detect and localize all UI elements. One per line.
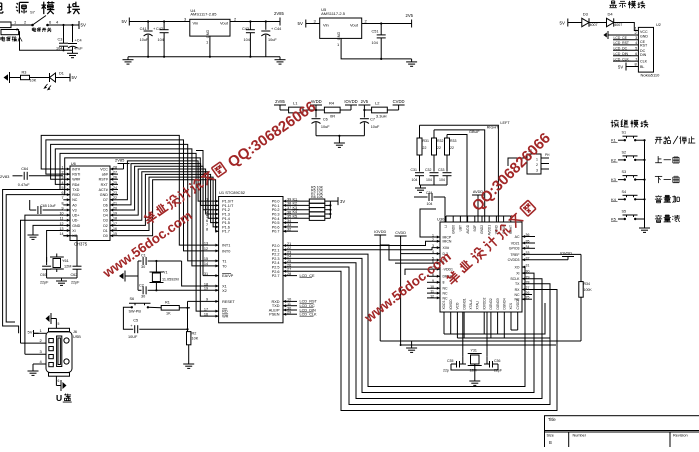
ground crystal Y1: [119, 271, 125, 282]
wire VS bottom drop: [497, 312, 499, 334]
svg-text:17: 17: [204, 307, 208, 311]
wire UD+ to USB pin3: [25, 215, 63, 354]
watermark left www: [99, 208, 195, 281]
connector U2 Nokia5110: [638, 23, 660, 77]
svg-text:30: 30: [141, 265, 145, 269]
svg-text:NC: NC: [443, 296, 449, 300]
wire AVDD stem: [477, 200, 479, 222]
svg-text:X2: X2: [222, 289, 227, 293]
svg-text:D6: D6: [103, 203, 108, 207]
net K5: [611, 217, 625, 222]
svg-text:GND: GND: [337, 32, 341, 41]
svg-text:104: 104: [372, 41, 378, 45]
ground rc network: [415, 185, 426, 192]
resistor R4 0R: [324, 101, 340, 119]
wire R33 top: [446, 135, 448, 139]
svg-text:22pF: 22pF: [40, 281, 49, 285]
wire XTALI down: [462, 312, 464, 357]
switch S7: [31, 16, 49, 27]
wire bottom horiz 341: [380, 340, 581, 342]
wire XO: [63, 236, 77, 262]
wire U4 Vout to 2V85: [230, 21, 280, 23]
capacitor C32 104: [425, 168, 439, 182]
capacitor C65 10uF: [30, 204, 64, 214]
wire VS bottom drop: [463, 312, 465, 338]
svg-text:MICN: MICN: [443, 240, 452, 244]
wire EA up: [196, 151, 203, 276]
capacitor C44 10uF: [261, 20, 281, 56]
switch S7 label: [30, 10, 36, 15]
svg-text:CVDD: CVDD: [393, 99, 405, 104]
wire VS pin7: [405, 269, 440, 275]
title block: [545, 416, 699, 452]
wire rc gnd rail: [420, 184, 448, 186]
svg-text:K4: K4: [611, 197, 617, 202]
wire pin32 IOVDD: [522, 259, 568, 261]
label 上一曲: [655, 156, 679, 163]
svg-text:5V: 5V: [72, 75, 77, 80]
svg-text:WR#: WR#: [72, 178, 80, 182]
svg-text:XTALI: XTALI: [476, 301, 480, 310]
resistor pullup 3: [309, 208, 325, 212]
svg-text:XTALA: XTALA: [469, 299, 473, 310]
svg-text:INT#: INT#: [72, 167, 80, 171]
wire XTALO down: [486, 312, 488, 357]
wire R4 to IOVDD: [340, 109, 351, 111]
wire R34 bottom: [580, 297, 582, 341]
wire U6 right pin stub: [110, 183, 118, 185]
svg-text:2: 2: [536, 163, 538, 167]
wire VS right stub: [522, 242, 535, 244]
net LCD_DIN: [283, 308, 316, 312]
pin 8: [635, 61, 638, 66]
svg-text:104: 104: [439, 178, 445, 182]
wire U6 right pin stub: [110, 194, 118, 196]
wire xtal gnd stem: [474, 364, 476, 378]
svg-text:22pF: 22pF: [71, 281, 80, 285]
svg-text:10uF: 10uF: [321, 125, 330, 129]
wire bus D7 to P1.0: [118, 161, 219, 201]
svg-text:R8 10K: R8 10K: [311, 195, 324, 199]
pin 4: [40, 359, 43, 364]
wire CVDD column: [400, 241, 402, 345]
svg-text:4007: 4007: [614, 23, 622, 27]
wire U6 pin9 stub: [63, 209, 70, 211]
svg-text:XI: XI: [516, 272, 519, 276]
wire P2.6 loop to VS1003: [283, 271, 557, 410]
capacitor C31 104: [411, 168, 425, 182]
svg-text:DGND3: DGND3: [496, 298, 500, 309]
wire VS pin1: [420, 209, 440, 237]
svg-text:VD21: VD21: [511, 241, 520, 245]
wire gnd stem: [411, 341, 413, 345]
net K1: [611, 138, 625, 143]
wire VS right stub: [522, 294, 532, 296]
svg-text:RSTI: RSTI: [72, 173, 80, 177]
wire VS bottom drop: [483, 312, 485, 334]
wire P0.2: [283, 209, 309, 211]
wire to gnd: [338, 136, 340, 140]
svg-text:D2: D2: [103, 224, 108, 228]
svg-text:Vin: Vin: [193, 21, 199, 26]
svg-text:UBT: UBT: [459, 225, 463, 231]
svg-text:3.3uH: 3.3uH: [376, 114, 387, 119]
svg-text:D4: D4: [608, 12, 614, 17]
svg-text:CVDD3: CVDD3: [508, 258, 520, 262]
wire U6 right pin stub: [110, 199, 118, 201]
svg-text:VCC: VCC: [100, 167, 108, 171]
pin 4: [56, 20, 59, 25]
svg-text:5V: 5V: [560, 20, 565, 25]
wire VS pin12 stub: [427, 297, 440, 299]
wire P2.4 loop to VS1003: [283, 263, 542, 399]
svg-text:Vout: Vout: [220, 21, 229, 26]
power 2V85 U6: [115, 158, 130, 170]
wire U6 pin7 stub: [63, 199, 70, 201]
svg-text:XO: XO: [514, 265, 519, 269]
svg-text:D5: D5: [103, 208, 108, 212]
wire XI: [47, 231, 64, 262]
svg-text:C3: C3: [58, 38, 63, 42]
svg-text:U30: U30: [437, 216, 445, 221]
wire VS pin4: [401, 253, 440, 255]
label U盘: [56, 393, 62, 403]
svg-text:RST#: RST#: [99, 178, 108, 182]
capacitor C36 22pF: [484, 359, 502, 373]
label 音量减: [655, 215, 680, 222]
svg-text:GND0: GND0: [451, 225, 455, 234]
svg-text:104: 104: [244, 38, 250, 42]
ground U6: [28, 232, 39, 239]
svg-text:30: 30: [141, 295, 145, 299]
svg-text:UD-: UD-: [72, 219, 79, 223]
svg-text:5: 5: [58, 322, 60, 326]
svg-text:Title: Title: [548, 417, 556, 422]
wire P0.6 stub: [283, 226, 298, 228]
svg-text:C42: C42: [156, 27, 163, 31]
wire U6 right pin stub: [110, 173, 118, 175]
net K1: [293, 197, 299, 201]
net K5: [293, 215, 299, 219]
svg-text:2V85: 2V85: [275, 99, 285, 104]
wire U6 gnd: [33, 225, 63, 232]
connector J3 USB socket: [46, 328, 81, 376]
wire xtal gnd rail2: [62, 277, 78, 279]
svg-text:D3: D3: [583, 12, 589, 17]
wire reset node: [186, 301, 188, 331]
wire U6 pin12 stub: [63, 224, 70, 226]
net K4: [611, 197, 625, 202]
svg-text:D4: D4: [103, 214, 108, 218]
connector J2 headphone: [527, 149, 550, 174]
svg-text:P1.7: P1.7: [222, 230, 230, 234]
svg-text:8: 8: [206, 228, 208, 232]
wire 5V to pin8: [626, 66, 638, 68]
wire crystal taps: [47, 254, 57, 273]
svg-text:B: B: [549, 440, 552, 445]
power 2V85: [274, 11, 284, 26]
svg-text:14: 14: [60, 232, 64, 236]
net K4: [293, 210, 299, 214]
wire gnd to R3: [10, 77, 21, 79]
svg-text:15: 15: [204, 257, 208, 261]
svg-text:J6: J6: [73, 330, 77, 334]
junction: [643, 179, 645, 181]
resistor R34 100K: [579, 282, 593, 298]
wire VS bottom drop: [443, 312, 445, 334]
svg-text:PSEN: PSEN: [269, 313, 280, 317]
wire USB pin2: [21, 342, 47, 344]
svg-text:V3: V3: [72, 208, 76, 212]
wire top stub rail: [446, 215, 511, 217]
ground U4 right: [275, 57, 286, 64]
wire U6 pin10 stub: [63, 214, 70, 216]
svg-text:INT1: INT1: [222, 244, 230, 248]
wire S7 to 5V: [48, 24, 80, 26]
wire VS top stub: [481, 216, 483, 222]
svg-text:0.47uF: 0.47uF: [18, 183, 31, 187]
svg-text:3: 3: [635, 36, 637, 40]
svg-text:22: 22: [450, 146, 454, 150]
svg-text:P2.7: P2.7: [272, 274, 280, 278]
resistor pullup 5: [309, 216, 325, 220]
wire bottom rail 334: [444, 303, 545, 334]
svg-text:S2: S2: [622, 150, 627, 154]
net LCD_CLK: [283, 313, 317, 317]
svg-text:LI: LI: [444, 225, 448, 228]
ground USB pin4: [28, 368, 39, 375]
svg-text:R2: R2: [192, 332, 197, 336]
svg-text:5V: 5V: [122, 19, 127, 24]
pin 1: [40, 328, 43, 333]
svg-text:C34: C34: [426, 191, 432, 195]
wire VS pin5: [380, 245, 440, 260]
wire R1 right: [179, 307, 190, 309]
wire VS top stub: [503, 216, 505, 222]
svg-text:INT0: INT0: [222, 249, 230, 253]
capacitor C43 104: [242, 20, 255, 56]
power 5V input U5: [298, 20, 306, 28]
wire U6 right pin stub: [110, 219, 118, 221]
pushbutton S4: [622, 190, 638, 201]
wire S6 left loop: [123, 307, 133, 329]
diode D3 4007: [582, 12, 598, 28]
svg-text:C65 10uF: C65 10uF: [40, 204, 55, 208]
svg-text:L1: L1: [293, 101, 298, 106]
wire S6 to R1: [148, 306, 161, 309]
wire 5V: [34, 332, 39, 334]
wire gnd to caps: [125, 275, 138, 277]
ground filter: [334, 140, 345, 147]
svg-text:D1: D1: [59, 72, 64, 76]
wire filter gnd rail: [316, 135, 364, 137]
svg-text:2V5: 2V5: [406, 13, 414, 18]
svg-text:P0.7: P0.7: [272, 230, 280, 234]
wire bus D0 to P1.7: [118, 180, 219, 236]
svg-text:NC: NC: [514, 293, 520, 297]
svg-text:CVDD2: CVDD2: [516, 298, 520, 309]
wire 5V to U4 Vin: [129, 21, 190, 23]
svg-text:IOVDD: IOVDD: [449, 299, 453, 310]
junction: [338, 135, 340, 137]
svg-text:C60: C60: [40, 273, 47, 277]
svg-text:RD: RD: [222, 310, 228, 314]
pushbutton S2: [622, 150, 638, 161]
wire bus U6 pin2 to MCU: [46, 140, 219, 251]
svg-text:U6: U6: [71, 161, 77, 166]
svg-text:R3: R3: [22, 71, 27, 75]
wire VS top stub: [474, 216, 476, 222]
ground crystal Y61: [56, 278, 67, 285]
wire bus D3 to P1.4: [118, 172, 219, 221]
svg-text:12: 12: [204, 247, 208, 251]
svg-text:C43: C43: [242, 27, 249, 31]
svg-text:22: 22: [423, 146, 427, 150]
svg-text:104: 104: [158, 38, 164, 42]
wire VS right stub: [522, 298, 532, 300]
watermark right cjk: [445, 200, 536, 286]
power 5V BL: [618, 63, 626, 71]
pin 2: [24, 20, 27, 25]
capacitor C5 10UF: [128, 319, 188, 339]
svg-text:Number: Number: [573, 434, 587, 438]
wire pullup to rail: [325, 213, 331, 215]
svg-text:K1: K1: [611, 138, 617, 143]
capacitor C34 104: [414, 191, 445, 222]
crystal Y61 12M: [50, 257, 71, 269]
ground Y31: [469, 378, 480, 385]
power CVDD mid: [395, 231, 407, 241]
diode D4 4007: [607, 12, 623, 28]
wire VS top stub: [510, 216, 512, 222]
svg-text:XCS: XCS: [509, 303, 513, 310]
wire power return: [19, 32, 73, 51]
svg-text:RST: RST: [640, 44, 648, 48]
pin 6: [49, 20, 52, 25]
svg-text:U: U: [56, 393, 62, 403]
wire U6 pin4 stub: [63, 183, 70, 185]
pin 1: [635, 25, 638, 30]
svg-text:GND: GND: [72, 224, 80, 228]
svg-text:SW-PB: SW-PB: [129, 310, 142, 314]
svg-text:R33: R33: [450, 139, 456, 143]
svg-text:S5: S5: [622, 210, 627, 214]
capacitor C2 30pF: [138, 284, 156, 299]
svg-text:47uF: 47uF: [74, 47, 83, 51]
label 下一曲: [655, 176, 679, 183]
svg-text:XI: XI: [72, 229, 75, 233]
svg-text:8: 8: [62, 201, 64, 205]
svg-text:13: 13: [204, 241, 208, 245]
capacitor C60 22pF: [40, 266, 51, 284]
net LCD_CE: [613, 36, 638, 40]
svg-text:IOVDD2: IOVDD2: [482, 297, 486, 309]
svg-text:C2: C2: [139, 284, 144, 288]
svg-text:RD#: RD#: [72, 183, 79, 187]
svg-text:C5: C5: [133, 319, 138, 323]
title 按键模块: [611, 120, 649, 128]
wire VS top stub: [467, 216, 469, 222]
wire P0.0: [283, 200, 309, 202]
svg-text:IOVDD: IOVDD: [344, 99, 357, 104]
label 电源开关: [32, 28, 51, 32]
junctions: [147, 56, 251, 58]
wire VS bottom drop: [517, 312, 519, 330]
wire rail to 5V: [330, 200, 338, 202]
wire c35 link: [463, 357, 466, 364]
svg-text:Nokia5110: Nokia5110: [641, 72, 661, 77]
pin 1: [14, 20, 17, 25]
resistor R32 22: [432, 138, 444, 155]
pin 6 shield bottom: [56, 376, 59, 385]
svg-text:R31: R31: [423, 139, 429, 143]
svg-text:104: 104: [427, 202, 433, 206]
svg-text:BL: BL: [640, 65, 644, 69]
pin 2: [40, 338, 43, 343]
svg-text:SOF: SOF: [473, 225, 477, 232]
wire U6 right pin stub: [110, 204, 118, 206]
junction: [18, 332, 20, 334]
wire R33 to C33: [446, 155, 448, 172]
svg-text:12M: 12M: [64, 265, 71, 269]
wire R32 to C32: [433, 155, 435, 172]
resistor R3 10K: [21, 71, 37, 83]
svg-text:DGND2: DGND2: [489, 298, 493, 309]
wire S3 to common: [635, 179, 644, 181]
svg-text:L2: L2: [375, 101, 380, 106]
wire gnd rail: [128, 56, 280, 58]
power IOVDD tap: [344, 99, 357, 110]
svg-text:10uF: 10uF: [371, 125, 380, 129]
wire U6 right pin stub: [110, 189, 118, 191]
svg-text:Vin: Vin: [323, 22, 329, 27]
svg-text:Y1: Y1: [163, 271, 168, 275]
svg-text:GND: GND: [100, 193, 108, 197]
svg-text:GPIO3: GPIO3: [509, 247, 520, 251]
resistor pullup 4: [309, 212, 325, 216]
wire xtal gnd rail: [47, 277, 62, 279]
svg-text:C7: C7: [370, 118, 375, 122]
net K2: [293, 202, 299, 206]
pushbutton S3: [622, 170, 638, 181]
wire bus D1 to P1.6: [118, 177, 219, 230]
power AVDD VS: [472, 190, 484, 200]
svg-text:5: 5: [635, 47, 637, 51]
svg-text:C36: C36: [494, 359, 500, 363]
wire C1C2 common: [137, 261, 139, 290]
wire S4 to common: [635, 198, 644, 200]
wire pin33 to R34: [522, 253, 581, 255]
capacitor C33 104: [438, 168, 452, 182]
power 5V pullups: [338, 197, 345, 205]
wire X2: [156, 289, 218, 291]
wire VCC pin28: [110, 168, 124, 170]
title 电源模块: [0, 1, 80, 14]
wire v3: [29, 200, 31, 210]
svg-text:RESET: RESET: [222, 300, 235, 304]
resistor R2 10K: [187, 332, 199, 345]
wire U6 pin2 stub: [63, 173, 70, 175]
pin 2: [635, 30, 638, 35]
svg-text:AMS1117-2.85: AMS1117-2.85: [190, 11, 217, 16]
svg-text:WR: WR: [222, 315, 229, 319]
capacitor C64 0.47uF: [0, 167, 63, 187]
wire R31 top: [419, 125, 421, 138]
wire R3 to D1: [30, 77, 50, 79]
svg-text:+C4: +C4: [75, 39, 82, 43]
svg-text:AC: AC: [515, 235, 520, 239]
svg-text:16: 16: [204, 312, 208, 316]
